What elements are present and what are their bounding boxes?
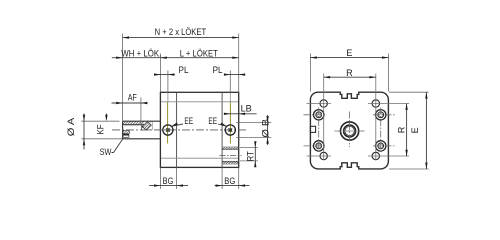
dimension OB	[236, 115, 271, 145]
rod female thread hatch strip	[123, 121, 144, 125]
mounting screw holes	[314, 110, 386, 151]
svg-text:EE: EE	[208, 116, 217, 126]
dimension RT	[240, 143, 258, 165]
left end-cap inner line	[176, 92, 178, 167]
svg-text:R: R	[397, 126, 407, 133]
svg-text:E: E	[346, 48, 352, 58]
svg-text:R: R	[346, 68, 353, 78]
svg-text:E: E	[410, 127, 420, 133]
right end-cap inner line	[221, 92, 223, 167]
svg-text:SW: SW	[100, 147, 112, 157]
rod thread cone hatch	[142, 122, 153, 130]
dimension N + 2 x LOKET	[123, 34, 239, 122]
svg-text:BG: BG	[163, 176, 174, 186]
port centerline left (olive)	[167, 93, 169, 144]
dimension AF	[112, 98, 148, 125]
small hole centerlines horizontal	[307, 104, 410, 157]
port centerline right (olive)	[229, 93, 231, 144]
svg-text:L + LÖKET: L + LÖKET	[180, 49, 218, 59]
port EE left	[163, 125, 173, 135]
small transfer holes	[320, 100, 379, 160]
RT threaded hole section	[220, 147, 242, 164]
dimension BG left	[149, 168, 188, 189]
dimension R top	[324, 76, 376, 78]
svg-text:RT: RT	[245, 151, 255, 162]
dimension E top	[310, 54, 388, 92]
svg-text:Ø B: Ø B	[261, 119, 271, 138]
dimension R right	[406, 104, 408, 157]
cylinder body side view	[160, 92, 238, 167]
svg-text:LB: LB	[241, 103, 252, 113]
label EE right with leader	[208, 116, 217, 126]
label SW with leader	[100, 147, 112, 157]
svg-text:WH + LÖK.: WH + LÖK.	[121, 49, 161, 59]
dimension PL right	[224, 71, 245, 93]
dimension BG right	[215, 168, 250, 189]
dimension WH + LOK.	[112, 54, 239, 92]
svg-text:AF: AF	[128, 92, 137, 102]
dimension E right	[389, 92, 429, 169]
label EE left with leader	[184, 116, 193, 126]
rod wrench flat SW block	[123, 131, 129, 138]
dimension OA	[81, 114, 122, 150]
end view body outline with notches	[310, 92, 388, 169]
port EE right	[225, 125, 235, 135]
center cross lines	[335, 112, 366, 148]
left edge sensor slot	[310, 126, 315, 132]
svg-text:BG: BG	[224, 176, 235, 186]
screw hole centerlines	[304, 108, 397, 154]
svg-text:PL: PL	[179, 65, 189, 75]
body chamfer line top	[161, 101, 238, 103]
body chamfer line bottom	[161, 157, 238, 159]
dimension KF leader	[105, 114, 107, 120]
small hole centerlines vertical	[324, 74, 376, 161]
dimension LB	[224, 113, 256, 115]
svg-text:PL: PL	[213, 65, 223, 75]
dimension L + LOKET	[232, 57, 238, 59]
svg-text:EE: EE	[184, 116, 193, 126]
svg-text:KF: KF	[95, 124, 105, 134]
piston rod outline	[123, 121, 161, 139]
svg-text:N + 2 x LÖKET: N + 2 x LÖKET	[155, 27, 207, 37]
dimension PL left	[154, 71, 175, 93]
center boss circles	[341, 122, 359, 140]
axis centerline	[112, 129, 248, 131]
svg-text:Ø A: Ø A	[66, 117, 76, 137]
